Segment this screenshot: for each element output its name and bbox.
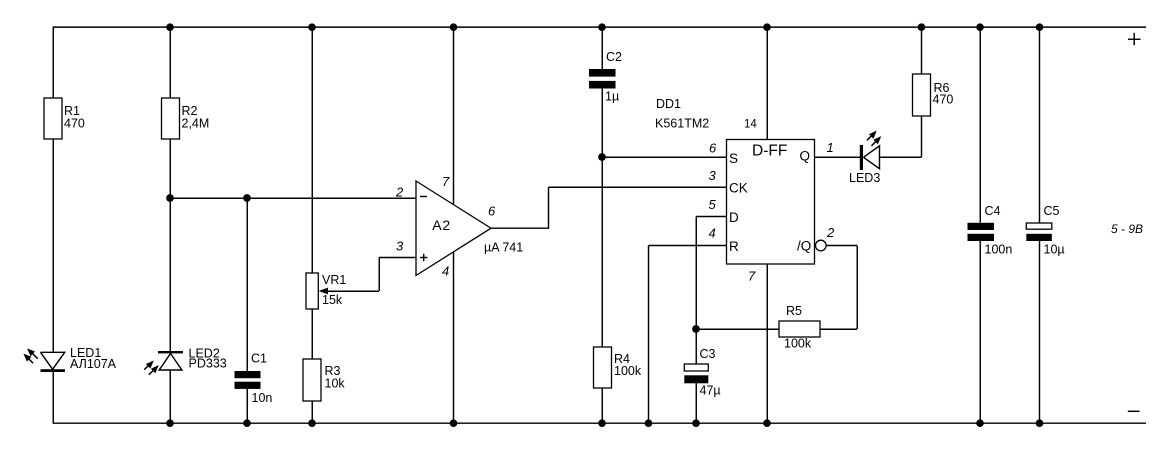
wire DD1 pin 7 ground (766, 264, 768, 423)
wire Q output to LED3 (815, 156, 861, 158)
wire op-amp pin 4 supply (453, 252, 455, 424)
svg-text:2,4M: 2,4M (182, 116, 210, 130)
wire VR1 to R3 (311, 309, 313, 359)
wire C4 top lead (979, 26, 981, 223)
svg-text:100k: 100k (614, 364, 642, 378)
svg-text:/Q: /Q (797, 239, 811, 254)
potentiometer VR1 (306, 273, 379, 309)
wire R pin to ground (649, 246, 727, 424)
svg-text:10µ: 10µ (1044, 243, 1065, 257)
svg-text:7: 7 (442, 174, 450, 189)
top supply rail wire (53, 26, 1146, 28)
svg-text:C1: C1 (251, 351, 267, 365)
wire S input net (602, 156, 727, 158)
junction D / C3 / R5 node (692, 325, 700, 333)
wire VR1 wiper to op-amp + input (379, 258, 416, 292)
junction C5 top rail (1036, 23, 1044, 31)
svg-text:3: 3 (709, 168, 717, 183)
junction LED2 bottom rail (166, 419, 174, 427)
junction C3 bottom rail (692, 419, 700, 427)
junction R3 bottom rail (308, 419, 316, 427)
capacitor C1 (235, 351, 273, 405)
svg-text:10k: 10k (325, 376, 346, 390)
junction pin14 top rail (763, 23, 771, 31)
wire LED2 to bottom rail (169, 370, 171, 423)
svg-text:10n: 10n (252, 391, 273, 405)
svg-text:LED3: LED3 (849, 171, 880, 185)
resistor R5 (779, 304, 820, 351)
junction C1 top node (243, 194, 251, 202)
svg-text:4: 4 (709, 226, 716, 241)
junction op-amp pin4 bottom rail (450, 419, 458, 427)
junction R4 bottom rail (598, 419, 606, 427)
svg-text:15k: 15k (322, 293, 343, 307)
LED3 (849, 132, 880, 185)
wire VR1 top lead (311, 26, 313, 273)
capacitor C5 electrolytic (1026, 204, 1064, 257)
op-amp A2 (416, 181, 523, 276)
junction C4 bottom rail (976, 419, 984, 427)
svg-text:470: 470 (933, 93, 954, 107)
wire LED1 to bottom rail (52, 372, 54, 424)
junction op-amp pin7 top rail (450, 23, 458, 31)
svg-text:1µ: 1µ (605, 90, 619, 104)
svg-text:3: 3 (396, 239, 404, 254)
wire C1 bottom lead (246, 389, 248, 423)
wire R1 top lead (52, 27, 54, 99)
svg-text:K561TM2: K561TM2 (655, 117, 709, 131)
resistor R4 (594, 347, 642, 388)
svg-text:7: 7 (748, 269, 756, 284)
svg-text:C3: C3 (700, 347, 716, 361)
svg-text:VR1: VR1 (322, 273, 346, 287)
svg-text:R5: R5 (786, 304, 802, 318)
wire C4 bottom lead (979, 241, 981, 423)
wire LED3 to R6 (880, 116, 922, 157)
svg-text:PD333: PD333 (189, 357, 227, 371)
svg-text:R: R (729, 239, 739, 254)
plus terminal (1128, 33, 1141, 45)
wire R3 bottom lead (311, 401, 313, 423)
svg-text:470: 470 (64, 116, 85, 130)
LED2 PD333 photodiode (144, 346, 227, 374)
resistor R6 (913, 74, 954, 116)
svg-text:1: 1 (827, 140, 834, 155)
wire op-amp output to CK (491, 187, 727, 229)
wire C2 top lead (601, 26, 603, 69)
junction C1 bottom rail (243, 419, 251, 427)
wire R2 bottom to LED2 (169, 139, 171, 351)
svg-text:47µ: 47µ (700, 384, 721, 398)
svg-text:5: 5 (709, 197, 717, 212)
junction R2 top rail (166, 23, 174, 31)
svg-text:µA 741: µA 741 (484, 240, 523, 254)
svg-text:A2: A2 (432, 217, 451, 233)
svg-text:S: S (729, 151, 738, 166)
svg-text:2: 2 (826, 225, 835, 240)
capacitor C4 (968, 204, 1013, 257)
wire C5 bottom lead (1039, 241, 1041, 423)
svg-text:100n: 100n (985, 243, 1013, 257)
svg-text:Q: Q (800, 149, 811, 164)
svg-text:АЛ107А: АЛ107А (70, 357, 117, 371)
wire C3 bottom lead (695, 383, 697, 423)
svg-text:C4: C4 (985, 204, 1001, 218)
wire R1 to LED1 (52, 139, 54, 352)
resistor R3 (303, 359, 345, 401)
svg-text:14: 14 (744, 119, 757, 131)
LED1 АЛ107А (24, 346, 116, 372)
svg-text:5 - 9В: 5 - 9В (1111, 222, 1143, 236)
svg-text:D: D (729, 210, 739, 225)
junction VR1 top rail (308, 23, 316, 31)
svg-text:100k: 100k (784, 337, 812, 351)
svg-text:6: 6 (488, 204, 496, 219)
resistor R1 (44, 98, 85, 139)
junction S node (598, 153, 606, 161)
svg-text:2: 2 (395, 185, 404, 200)
wire C5 top lead (1039, 26, 1041, 223)
junction pin7 bottom rail (763, 419, 771, 427)
svg-text:4: 4 (442, 264, 449, 279)
wire C1 top lead (246, 198, 248, 371)
junction R2 / inverting input node (166, 194, 174, 202)
flip-flop DD1 (727, 140, 827, 265)
junction C2 top rail (598, 23, 606, 31)
wire C3 to R5 (696, 328, 779, 330)
wire R4 bottom lead (601, 388, 603, 423)
junction R ground bottom rail (645, 419, 653, 427)
wire D pin net (696, 217, 727, 365)
wire op-amp pin 7 supply (453, 26, 455, 205)
capacitor C3 electrolytic (684, 347, 720, 398)
svg-text:CK: CK (729, 181, 748, 196)
wire R5 to /Q (820, 246, 857, 330)
bottom supply rail wire (53, 422, 1146, 424)
wire C2 bottom to R4 (601, 89, 603, 348)
svg-text:C5: C5 (1044, 204, 1060, 218)
wire inverting input net (170, 197, 416, 199)
svg-text:C2: C2 (606, 50, 622, 64)
junction C5 bottom rail (1036, 419, 1044, 427)
svg-text:DD1: DD1 (656, 97, 681, 111)
wire R6 top lead (921, 26, 923, 74)
svg-text:D-FF: D-FF (752, 143, 787, 160)
minus terminal (1128, 410, 1140, 412)
junction C4 top rail (976, 23, 984, 31)
resistor R2 (162, 98, 210, 139)
wire DD1 pin 14 supply (766, 26, 768, 140)
wire R2 top lead (169, 26, 171, 98)
junction R6 top rail (918, 23, 926, 31)
capacitor C2 (589, 50, 622, 104)
svg-text:6: 6 (709, 141, 717, 156)
